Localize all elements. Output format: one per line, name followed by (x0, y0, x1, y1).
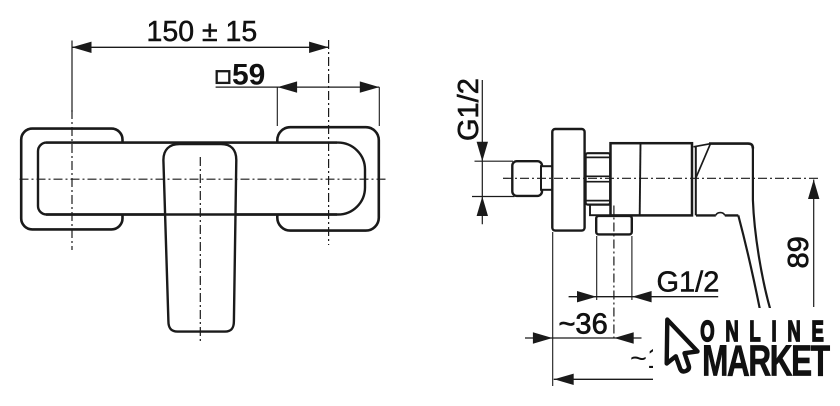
hex nut facet line mid-upper (586, 175, 610, 177)
svg-text:G1/2: G1/2 (657, 267, 720, 299)
mixer body (side) (611, 143, 693, 215)
dimension 150±15 line (72, 46, 329, 48)
hex nut facet line mid-lower (586, 181, 610, 183)
hex nut (side) (586, 153, 611, 204)
watermark cursor icon (667, 320, 698, 372)
dimension G1/2 inlet: bottom tick (472, 196, 515, 198)
svg-text:89: 89 (783, 236, 815, 268)
centerline left flange (front) (71, 110, 73, 250)
watermark text MARKET (702, 338, 830, 386)
lever bottom edge (side) (696, 214, 738, 216)
dimension G1/2 inlet: arrow down (477, 142, 488, 162)
svg-text:150 ± 15: 150 ± 15 (147, 16, 258, 48)
lever cap edge (side) (695, 147, 697, 215)
lever bottom dimple (side) (716, 213, 725, 216)
svg-text:59: 59 (232, 58, 265, 91)
dimension 150±15 extension line left (71, 41, 73, 113)
dimension G1/2 outlet: extension line right (631, 236, 633, 300)
svg-text:~36: ~36 (559, 308, 608, 340)
dimension ~36: line (525, 337, 642, 339)
lever handle (front) (163, 144, 236, 332)
dimension G1/2 outlet: line (569, 296, 719, 298)
inlet connector nut (side) (512, 161, 542, 196)
dimension ~36: arrow pointing right (533, 332, 553, 343)
mixer body (front) (38, 143, 365, 215)
centerline right flange (front) (328, 40, 330, 245)
watermark white backdrop (653, 308, 840, 388)
lever neck steep line (side) (696, 144, 711, 178)
dimension G1/2 outlet: arrow pointing right (577, 291, 597, 302)
dimension 89: arrow up (808, 180, 819, 200)
body bottom edge over handle (46, 213, 337, 215)
dimension ~36: extension line left (552, 232, 554, 386)
body top edge over handle (46, 141, 337, 143)
lever right edge and arm outer edge (side) (753, 147, 770, 308)
dimension G1/2 outlet: extension line left (596, 236, 598, 300)
centerline horizontal (side) (503, 177, 821, 179)
dimension square59 extension line left (276, 87, 278, 126)
escutcheon wall plate (side) (552, 129, 584, 231)
dimension square59 arrow right (360, 81, 380, 92)
centerline horizontal (front) (20, 178, 388, 180)
lever top edge (side) (709, 144, 753, 149)
dimension G1/2 inlet: vertical line (481, 80, 483, 224)
dimension G1/2 inlet: arrow up (477, 197, 488, 217)
dimension square59 line (216, 86, 380, 88)
dimension 150±15 arrow left (72, 42, 92, 53)
svg-text:MARKET: MARKET (702, 338, 830, 386)
step under nut (side) (590, 205, 611, 215)
dimension overall depth: line (554, 378, 656, 380)
dimension G1/2 inlet: top tick (475, 160, 514, 162)
body section line (side) (639, 144, 642, 216)
hex nut facet line top (586, 156, 610, 158)
svg-text:G1/2: G1/2 (453, 78, 485, 141)
mounting flange left (front) (21, 129, 122, 230)
mounting flange right (front) (277, 127, 379, 230)
dimension 150±15 arrow right (309, 42, 329, 53)
outlet fitting (side) (596, 216, 632, 235)
inlet stub (side) (541, 166, 553, 190)
lever neck shallow line (side) (694, 144, 711, 147)
hex nut facet line bottom (586, 200, 610, 202)
square symbol of 59 (217, 71, 230, 83)
dimension G1/2 outlet: arrow pointing left (632, 291, 652, 302)
dimension ~36: arrow pointing left (614, 332, 634, 343)
lever arm inner edge (side) (738, 215, 759, 308)
lever silhouette fill (side) (696, 144, 770, 309)
dimension square59 arrow left (278, 81, 298, 92)
dimension overall depth: arrow pointing left (554, 374, 574, 385)
watermark text ONLINE (700, 316, 834, 348)
centerline outlet vertical (side) (613, 206, 615, 342)
dimension 89: vertical line (813, 180, 815, 308)
centerline handle (front) (199, 157, 201, 342)
dimension square59 extension line right (378, 87, 380, 126)
